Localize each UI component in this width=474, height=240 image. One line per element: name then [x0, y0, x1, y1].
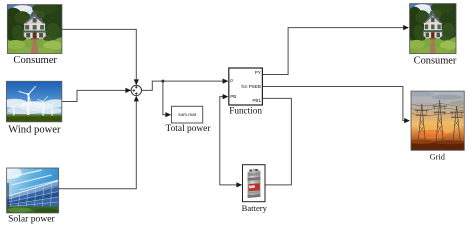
svg-text:Total power: Total power [166, 124, 212, 134]
svg-text:P: P [230, 79, 233, 84]
svg-text:Consumer: Consumer [13, 55, 57, 66]
svg-text:Grid: Grid [430, 153, 446, 162]
svg-text:PB: PB [230, 94, 236, 99]
svg-text:Solar power: Solar power [8, 213, 55, 224]
svg-text:Battery: Battery [242, 203, 268, 213]
svg-text:Wind power: Wind power [8, 125, 61, 136]
svg-text:PY: PY [255, 70, 261, 75]
svg-text:Function: Function [229, 105, 262, 115]
svg-text:PB1: PB1 [252, 98, 261, 103]
svg-text:sum.mat: sum.mat [178, 112, 196, 117]
svg-text:Consumer: Consumer [414, 56, 457, 67]
svg-text:fcn PSEB: fcn PSEB [241, 84, 261, 89]
